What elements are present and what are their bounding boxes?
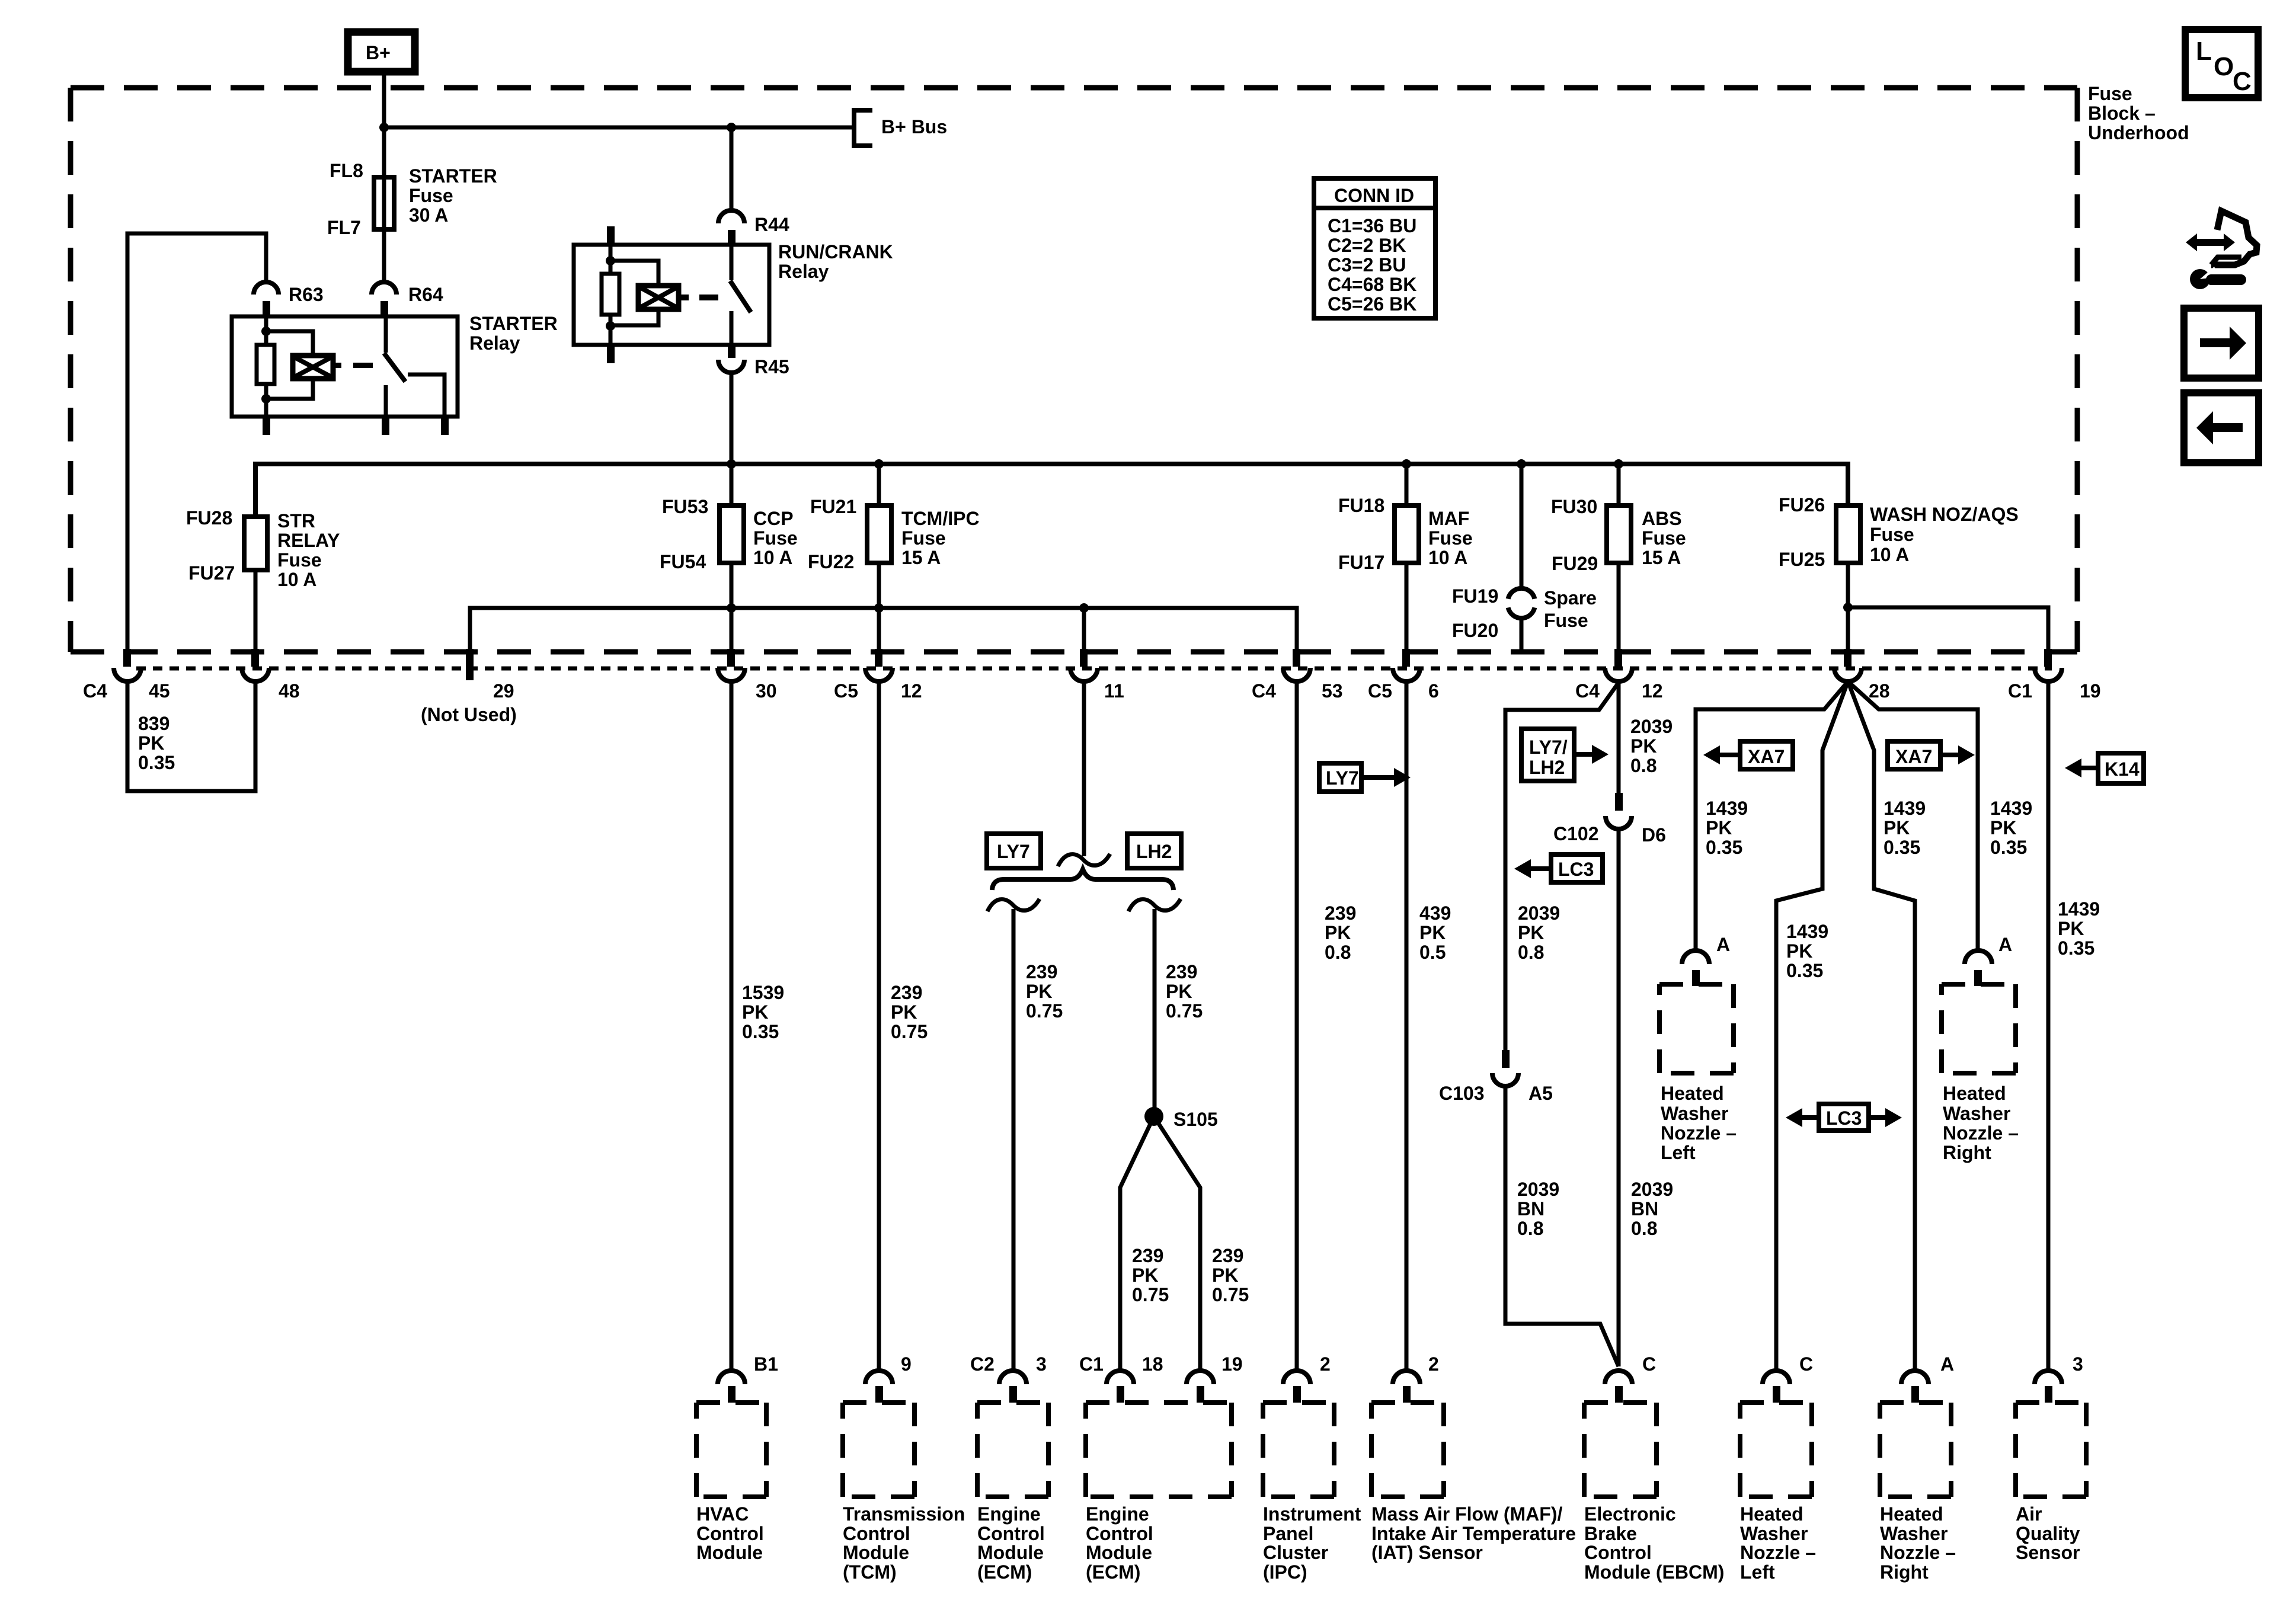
svg-text:18: 18 [1142, 1353, 1163, 1375]
svg-text:10 A: 10 A [1870, 544, 1909, 565]
pin 11 [1070, 649, 1124, 702]
svg-text:C: C [1799, 1353, 1813, 1375]
svg-text:LY7: LY7 [997, 841, 1030, 862]
svg-text:1439: 1439 [1884, 798, 1926, 819]
svg-text:(ECM): (ECM) [1086, 1561, 1140, 1583]
pin C2-3 ECM [970, 1353, 1047, 1403]
svg-text:0.35: 0.35 [2058, 937, 2094, 959]
svg-text:K14: K14 [2105, 758, 2140, 780]
svg-text:BN: BN [1631, 1198, 1658, 1219]
svg-text:839: 839 [138, 713, 170, 734]
svg-text:Left: Left [1661, 1142, 1696, 1163]
svg-text:2039: 2039 [1631, 1179, 1673, 1200]
svg-text:239: 239 [1325, 902, 1356, 924]
svg-text:(ECM): (ECM) [977, 1561, 1032, 1583]
tag XA7 arrow right [1888, 741, 1975, 769]
svg-text:Underhood: Underhood [2088, 122, 2189, 143]
svg-text:PK: PK [1706, 817, 1732, 838]
pin C4-12 EBCM [1575, 649, 1663, 702]
wire 2039 PK 0.8 branch via C103 [1505, 683, 1619, 1050]
svg-text:(TCM): (TCM) [843, 1561, 897, 1583]
svg-text:1439: 1439 [2058, 898, 2100, 920]
pin R44 [718, 127, 789, 245]
svg-text:Heated: Heated [1740, 1503, 1803, 1525]
tag LY7 [987, 834, 1041, 868]
pin 2 MAF [1393, 1353, 1439, 1403]
svg-text:Cluster: Cluster [1263, 1542, 1328, 1563]
svg-text:1439: 1439 [1990, 798, 2032, 819]
svg-text:3: 3 [2073, 1353, 2083, 1375]
svg-text:Left: Left [1740, 1561, 1775, 1583]
svg-text:PK: PK [138, 732, 164, 754]
wire B+ down to bus and FL8 [382, 72, 386, 177]
wire 1439 PK 0.35 to right washer nozzle [1848, 681, 2032, 951]
svg-text:(IPC): (IPC) [1263, 1561, 1307, 1583]
wire R45 to main bus [730, 373, 734, 466]
wire 2039 BN 0.8 C103 to EBCM pin C [1505, 1086, 1619, 1366]
svg-text:0.35: 0.35 [1884, 837, 1920, 858]
svg-text:Transmission: Transmission [843, 1503, 965, 1525]
fuse FU18/FU17 MAF 10A [1338, 495, 1473, 573]
svg-text:Engine: Engine [977, 1503, 1041, 1525]
svg-text:53: 53 [1322, 680, 1343, 702]
svg-text:30: 30 [756, 680, 777, 702]
svg-text:C3=2 BU: C3=2 BU [1328, 254, 1406, 276]
pin 28 [1834, 649, 1890, 702]
svg-text:FU17: FU17 [1338, 552, 1384, 573]
starter relay resistor branch [257, 316, 274, 435]
svg-text:FU21: FU21 [810, 496, 856, 517]
svg-text:C2: C2 [970, 1353, 994, 1375]
svg-text:PK: PK [1166, 981, 1192, 1002]
svg-text:PK: PK [742, 1001, 768, 1023]
svg-text:R44: R44 [754, 214, 789, 235]
svg-text:B+: B+ [366, 42, 391, 63]
svg-text:Spare: Spare [1544, 587, 1597, 609]
tag K14 arrow left [2065, 753, 2144, 783]
svg-text:Heated: Heated [1880, 1503, 1943, 1525]
pin 2 IPC [1283, 1353, 1331, 1403]
svg-text:PK: PK [2058, 918, 2084, 939]
svg-text:Brake: Brake [1584, 1523, 1637, 1544]
pin 9 TCM [865, 1353, 912, 1403]
svg-text:239: 239 [1166, 961, 1197, 982]
pin C4-45 [83, 649, 170, 702]
svg-text:Washer: Washer [1943, 1103, 2010, 1124]
svg-text:0.35: 0.35 [742, 1021, 779, 1042]
node R44 branch junction [727, 123, 736, 132]
node WASH branch [1843, 603, 1853, 612]
svg-text:C5=26 BK: C5=26 BK [1328, 293, 1416, 315]
svg-text:Module: Module [696, 1542, 763, 1563]
node B+ bus junction [379, 123, 389, 132]
svg-text:239: 239 [891, 982, 922, 1003]
instrument panel cluster box [1263, 1403, 1361, 1583]
svg-text:C4=68 BK: C4=68 BK [1328, 274, 1416, 295]
pin A left washer nozzle [1682, 934, 1730, 986]
svg-text:10 A: 10 A [277, 569, 316, 590]
svg-text:PK: PK [1990, 817, 2016, 838]
svg-text:LH2: LH2 [1529, 757, 1565, 778]
wire 239 PK 0.75 TCM [879, 681, 928, 1371]
pin 19 ECM [1187, 1353, 1243, 1403]
svg-text:Washer: Washer [1880, 1523, 1948, 1544]
svg-text:10 A: 10 A [753, 547, 792, 568]
wire 1439 PK 0.35 to nozzle right heater A [1848, 681, 1926, 1371]
svg-text:FL7: FL7 [327, 217, 361, 238]
svg-text:0.8: 0.8 [1630, 755, 1657, 776]
svg-text:Washer: Washer [1740, 1523, 1808, 1544]
wire 439 PK 0.5 MAF [1406, 681, 1451, 1371]
node bus R45/CCP [727, 459, 736, 469]
svg-text:Electronic: Electronic [1584, 1503, 1676, 1525]
svg-text:Heated: Heated [1943, 1083, 2006, 1104]
svg-text:439: 439 [1419, 902, 1451, 924]
heated washer nozzle left inline box [1659, 984, 1737, 1163]
node bus MAF [1402, 459, 1411, 469]
node bus ABS [1614, 459, 1623, 469]
CONN ID table [1314, 178, 1435, 318]
svg-text:FU29: FU29 [1552, 553, 1598, 574]
svg-text:BN: BN [1517, 1198, 1544, 1219]
svg-text:A5: A5 [1528, 1083, 1553, 1104]
tag LC3 arrow left [1514, 854, 1603, 882]
break squiggle LY7 wire [987, 899, 1040, 911]
svg-text:9: 9 [901, 1353, 912, 1375]
svg-text:Control: Control [843, 1523, 910, 1544]
svg-text:ABS: ABS [1642, 508, 1682, 529]
wire pin45 riser to R63 [127, 233, 266, 652]
wire ABS drop [1617, 464, 1621, 652]
svg-text:Module: Module [843, 1542, 909, 1563]
pin C EBCM [1605, 1353, 1656, 1403]
wire 1439 PK 0.35 to nozzle left heater C [1776, 681, 1848, 1371]
starter relay coil branch [266, 331, 333, 399]
svg-text:R63: R63 [289, 284, 324, 305]
svg-text:PK: PK [1132, 1265, 1158, 1286]
svg-text:239: 239 [1132, 1245, 1163, 1266]
svg-text:Heated: Heated [1661, 1083, 1724, 1104]
node rail TCM [874, 603, 884, 613]
svg-text:Air: Air [2016, 1503, 2042, 1525]
run/crank relay left pin stub [607, 226, 615, 245]
svg-text:LC3: LC3 [1826, 1108, 1862, 1129]
svg-text:RUN/CRANK: RUN/CRANK [778, 241, 893, 263]
svg-text:1539: 1539 [742, 982, 784, 1003]
svg-text:FU54: FU54 [660, 551, 706, 572]
wire pin 11 stub down [1082, 681, 1086, 856]
wire CCP drop [730, 464, 734, 652]
svg-text:C102: C102 [1553, 823, 1599, 844]
svg-text:D6: D6 [1642, 824, 1666, 846]
wire 1439 PK 0.35 AQS [2048, 681, 2100, 1371]
starter relay coil-switch dashed link [332, 363, 341, 368]
svg-text:FU22: FU22 [808, 551, 854, 572]
svg-text:PK: PK [1026, 981, 1052, 1002]
svg-text:48: 48 [279, 680, 300, 702]
svg-text:0.8: 0.8 [1518, 942, 1544, 963]
pin C1-18 ECM [1079, 1353, 1163, 1403]
svg-text:STARTER: STARTER [409, 165, 497, 187]
svg-text:L: L [2196, 37, 2212, 66]
svg-text:TCM/IPC: TCM/IPC [901, 508, 980, 529]
svg-text:STR: STR [277, 510, 315, 532]
LOC legend box [2185, 30, 2258, 98]
svg-text:HVAC: HVAC [696, 1503, 749, 1525]
svg-text:2039: 2039 [1630, 716, 1673, 737]
svg-text:C2=2 BK: C2=2 BK [1328, 235, 1406, 256]
svg-text:(Not Used): (Not Used) [421, 704, 517, 725]
svg-text:11: 11 [1104, 680, 1124, 702]
fuse FU26/FU25 WASH NOZ/AQS 10A [1779, 494, 2019, 570]
svg-text:1439: 1439 [1786, 921, 1828, 942]
pin C5-6 [1368, 649, 1439, 702]
svg-text:3: 3 [1036, 1353, 1047, 1375]
wire 2039 BN 0.8 right [1631, 1179, 1673, 1239]
svg-text:C5: C5 [834, 680, 858, 702]
heated washer nozzle right inline box [1942, 984, 2019, 1163]
wire 239 PK 0.8 IPC [1297, 681, 1356, 1371]
break squiggle pin 11 [1058, 854, 1110, 866]
wire B+ bus horizontal [384, 126, 852, 130]
svg-text:C: C [1642, 1353, 1656, 1375]
pin 3 AQS [2035, 1353, 2083, 1403]
svg-text:Fuse: Fuse [1870, 524, 1914, 545]
svg-text:Engine: Engine [1086, 1503, 1149, 1525]
svg-text:30 A: 30 A [409, 204, 448, 226]
B+ terminal box [348, 32, 415, 72]
pin 30 [718, 649, 777, 702]
brace engine variants [992, 869, 1173, 890]
svg-text:0.75: 0.75 [891, 1021, 928, 1042]
svg-text:PK: PK [1884, 817, 1910, 838]
svg-text:2039: 2039 [1518, 902, 1560, 924]
svg-text:0.35: 0.35 [138, 752, 175, 773]
svg-text:RELAY: RELAY [277, 530, 340, 551]
svg-text:WASH NOZ/AQS: WASH NOZ/AQS [1870, 504, 2019, 525]
pin C5-12 [834, 649, 922, 702]
svg-text:A: A [1940, 1353, 1954, 1375]
svg-text:0.35: 0.35 [1786, 960, 1823, 981]
svg-text:0.8: 0.8 [1325, 942, 1351, 963]
svg-text:Fuse: Fuse [753, 527, 798, 549]
svg-text:R45: R45 [754, 356, 789, 377]
svg-text:C5: C5 [1368, 680, 1392, 702]
svg-text:R64: R64 [408, 284, 443, 305]
wire 2039 PK 0.8 EBCM via C102 [1619, 681, 1673, 793]
svg-text:C1=36 BU: C1=36 BU [1328, 215, 1416, 236]
wire STR fuse to pin 48 [254, 570, 258, 652]
svg-text:Control: Control [1086, 1523, 1153, 1544]
wire S105 to pin 18 [1120, 1116, 1169, 1371]
svg-text:C1: C1 [2008, 680, 2032, 702]
svg-text:Fuse: Fuse [1544, 610, 1588, 631]
svg-text:MAF: MAF [1428, 508, 1469, 529]
fuse FU28/FU27 STR RELAY 10A [186, 507, 340, 590]
svg-text:Right: Right [1943, 1142, 1991, 1163]
svg-text:Mass Air Flow (MAF)/: Mass Air Flow (MAF)/ [1371, 1503, 1562, 1525]
svg-text:15 A: 15 A [901, 547, 941, 568]
svg-text:A: A [1716, 934, 1730, 955]
wire WASH fuse to pin 28 [1846, 563, 1850, 652]
svg-text:XA7: XA7 [1748, 746, 1785, 767]
pin C1-19 [2008, 649, 2101, 702]
svg-text:FU20: FU20 [1452, 620, 1498, 641]
svg-text:FU19: FU19 [1452, 585, 1498, 607]
run/crank relay box [574, 245, 769, 345]
tag XA7 arrow left [1703, 741, 1793, 769]
svg-text:Nozzle –: Nozzle – [1661, 1122, 1737, 1144]
svg-text:FU25: FU25 [1779, 549, 1825, 570]
electronic brake control module box [1584, 1403, 1724, 1583]
svg-text:LY7/: LY7/ [1529, 737, 1568, 758]
svg-text:Block –: Block – [2088, 103, 2156, 124]
pin R63 [254, 282, 324, 316]
svg-text:0.75: 0.75 [1132, 1284, 1169, 1305]
svg-text:2: 2 [1320, 1353, 1331, 1375]
svg-text:Nozzle –: Nozzle – [1943, 1122, 2019, 1144]
svg-text:Relay: Relay [778, 261, 829, 282]
fuse FU30/FU29 ABS 15A [1551, 496, 1686, 574]
pin A right washer nozzle [1965, 934, 2012, 986]
svg-text:Fuse: Fuse [409, 185, 453, 206]
fuse FU53/FU54 CCP 10A [660, 496, 798, 572]
wire FL8 to R64 [382, 229, 386, 281]
svg-text:FU26: FU26 [1779, 494, 1825, 516]
legend arrow right box [2184, 308, 2259, 378]
wire S105 to pin 19 [1154, 1116, 1249, 1371]
pin C4-53 [1252, 649, 1343, 702]
svg-text:0.8: 0.8 [1517, 1218, 1543, 1239]
svg-text:PK: PK [891, 1001, 917, 1023]
svg-text:6: 6 [1428, 680, 1439, 702]
engine control module box 1 [977, 1403, 1048, 1583]
transmission control module box [843, 1403, 965, 1583]
wire 239 PK 0.75 ECM C1 splice feed [1155, 909, 1203, 1116]
svg-text:Intake Air Temperature: Intake Air Temperature [1371, 1523, 1576, 1544]
svg-text:0.75: 0.75 [1212, 1284, 1249, 1305]
svg-text:12: 12 [901, 680, 922, 702]
svg-text:0.8: 0.8 [1631, 1218, 1657, 1239]
svg-text:Fuse: Fuse [1428, 527, 1473, 549]
svg-text:10 A: 10 A [1428, 547, 1467, 568]
svg-text:B1: B1 [754, 1353, 778, 1375]
svg-text:Fuse: Fuse [277, 549, 322, 571]
wire pin 11 drop [1082, 608, 1086, 652]
connector face dotted line [136, 667, 2052, 671]
svg-text:Control: Control [696, 1523, 764, 1544]
heated washer nozzle right box [1880, 1403, 1956, 1583]
svg-text:Instrument: Instrument [1263, 1503, 1361, 1525]
legend arrow left box [2184, 393, 2259, 463]
svg-text:45: 45 [149, 680, 170, 702]
label Fuse Block - Underhood [2088, 83, 2189, 143]
svg-text:239: 239 [1026, 961, 1057, 982]
wire WASH branch to pin 19 [1848, 607, 2048, 652]
svg-text:C4: C4 [1252, 680, 1276, 702]
svg-text:PK: PK [1786, 940, 1812, 962]
run/crank relay coil branch [610, 261, 679, 325]
run/crank relay switch [730, 245, 751, 345]
svg-text:CONN ID: CONN ID [1334, 185, 1414, 206]
pin C washer nozzle left [1763, 1353, 1813, 1403]
svg-text:LH2: LH2 [1136, 841, 1172, 862]
svg-text:LY7: LY7 [1326, 767, 1359, 789]
svg-text:PK: PK [1325, 922, 1351, 943]
svg-text:LC3: LC3 [1558, 859, 1594, 880]
svg-text:29: 29 [493, 680, 514, 702]
svg-text:Washer: Washer [1661, 1103, 1728, 1124]
wire 1439 PK 0.35 to left washer nozzle [1696, 681, 1848, 951]
svg-text:(IAT) Sensor: (IAT) Sensor [1371, 1542, 1483, 1563]
svg-text:Nozzle –: Nozzle – [1740, 1542, 1816, 1563]
svg-text:Relay: Relay [469, 332, 520, 354]
svg-text:0.5: 0.5 [1419, 942, 1446, 963]
MAF IAT sensor box [1371, 1403, 1576, 1563]
svg-text:19: 19 [2080, 680, 2101, 702]
inline connector C103 A5 [1439, 1050, 1553, 1104]
tag LH2 [1127, 834, 1181, 868]
pin A washer nozzle right [1901, 1353, 1954, 1403]
wire MAF drop [1405, 464, 1409, 652]
svg-text:PK: PK [1630, 735, 1657, 757]
fuse FU21/FU22 TCM/IPC 15A [808, 496, 980, 572]
svg-text:0.75: 0.75 [1166, 1000, 1203, 1022]
inline connector C102 D6 [1553, 793, 1666, 846]
engine control module box 2 [1086, 1403, 1232, 1583]
wire not-used rail [470, 608, 1297, 652]
svg-text:STARTER: STARTER [469, 313, 558, 334]
main fuse bus [255, 464, 1848, 517]
heated washer nozzle left box [1740, 1403, 1816, 1583]
svg-text:C4: C4 [83, 680, 107, 702]
spare fuse FU19/FU20 [1452, 585, 1597, 641]
svg-text:B+ Bus: B+ Bus [881, 116, 947, 137]
svg-text:1439: 1439 [1706, 798, 1748, 819]
tag LY7/LH2 arrow right [1521, 729, 1609, 781]
svg-text:PK: PK [1212, 1265, 1238, 1286]
svg-text:CCP: CCP [753, 508, 794, 529]
svg-text:15 A: 15 A [1642, 547, 1681, 568]
svg-text:2: 2 [1428, 1353, 1439, 1375]
pin 29 not used [421, 649, 517, 725]
svg-text:PK: PK [1518, 922, 1544, 943]
diagram icon: door with double arrow and wrench [2186, 211, 2257, 289]
run/crank relay coil-switch dashed link [679, 295, 689, 300]
run/crank relay resistor branch [602, 245, 619, 363]
svg-text:FL8: FL8 [330, 160, 363, 181]
wire spare fuse drop [1520, 464, 1524, 590]
svg-text:0.75: 0.75 [1026, 1000, 1063, 1022]
svg-text:Control: Control [977, 1523, 1045, 1544]
svg-text:2039: 2039 [1517, 1179, 1559, 1200]
tag LY7 arrow right [1319, 763, 1411, 792]
svg-text:Quality: Quality [2016, 1523, 2080, 1544]
svg-text:Module (EBCM): Module (EBCM) [1584, 1561, 1724, 1583]
wire 239 PK 0.75 ECM C2-3 [1013, 909, 1063, 1371]
pin R64 [372, 282, 443, 316]
svg-text:0.35: 0.35 [1706, 837, 1742, 858]
pin B1 HVAC [718, 1353, 778, 1403]
pin 48 [242, 649, 300, 702]
node rail CCP [727, 603, 736, 613]
svg-text:12: 12 [1642, 680, 1663, 702]
svg-text:Control: Control [1584, 1542, 1652, 1563]
wire 1539 PK 0.35 HVAC [731, 681, 784, 1371]
fuse block underhood dashed border [71, 88, 2077, 652]
starter relay switch [382, 316, 449, 435]
splice S105 [1144, 1107, 1218, 1130]
